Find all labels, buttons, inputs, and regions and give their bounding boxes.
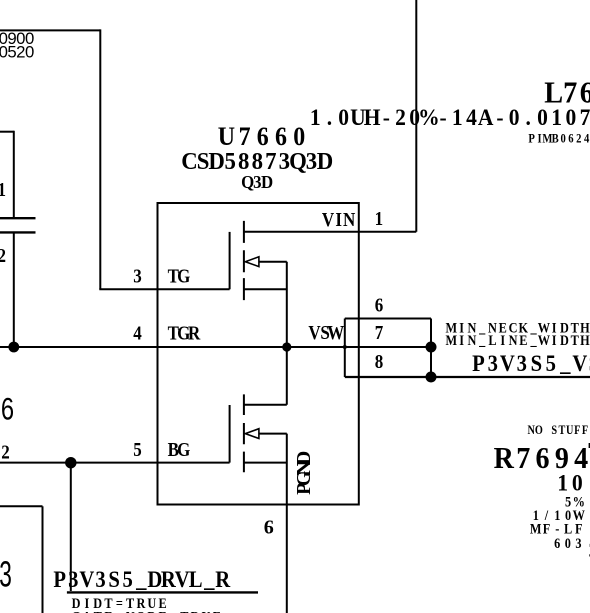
svg-text:5: 5 [133,439,142,462]
wire TG net top horizontal [0,29,100,31]
pins bracket right edge [430,319,432,378]
svg-text:Q3D: Q3D [241,171,273,192]
junction FET source/VSW [282,342,291,351]
transistor Q-high channel dashes [243,221,245,300]
wire TGR / VSW horizontal net [0,346,431,348]
transistor Q-low gate bar [229,405,231,463]
transistor Q-low drain bar [244,404,287,406]
component U7660 body box [158,203,359,505]
transistor Q-low channel dashes [243,394,245,472]
wire TG net vertical [99,29,101,289]
svg-text:6: 6 [375,294,384,317]
svg-text:VIN: VIN [322,209,356,232]
svg-text:P3V3S5_VSW: P3V3S5_VSW [472,350,590,377]
svg-text:2: 2 [1,441,10,464]
junction small bracket left [343,345,347,349]
svg-text:2: 2 [0,245,6,268]
svg-text:1: 1 [0,179,6,202]
wire capacitor top lead [13,131,15,219]
transistor Q-high body-diode line [259,261,287,263]
wire VIN vertical from top [415,0,417,232]
junction BG/DRVL [65,457,76,468]
transistor Q-high source bar [244,288,287,290]
svg-text:3: 3 [0,554,12,595]
arrow Q-high body diode [245,257,259,267]
wire capacitor bottom lead [13,232,15,347]
wire TG net into gate [99,288,229,290]
svg-text:7: 7 [375,322,384,345]
arrow Q-low body diode [245,429,259,439]
junction bracket pin7 [426,342,437,353]
capacitor C-left top plate [0,217,36,219]
junction capacitor/TGR [8,342,19,353]
transistor Q-low source bar [244,462,287,464]
svg-text:TG: TG [168,265,191,288]
cut-off character sliver right of R7694 [589,443,590,448]
svg-text:PGND: PGND [293,451,315,495]
wire VIN pin 1 / top FET drain [244,231,416,233]
wire top FET source to VSW [286,262,288,405]
svg-text:NO STUFF: NO STUFF [527,424,588,437]
svg-text:3: 3 [133,265,142,288]
svg-text:P3V3S5_DRVL_R: P3V3S5_DRVL_R [53,566,231,593]
svg-text:0520: 0520 [0,43,34,62]
svg-text:TGR: TGR [168,322,201,345]
component box bottom-left top edge [0,505,43,507]
svg-text:4: 4 [133,322,142,345]
svg-text:8: 8 [375,351,384,374]
net label underline P3V3S5_DRVL_R [67,591,258,593]
wire pin 9 PGND below box [286,505,288,613]
svg-text:1: 1 [375,208,384,231]
svg-text:9: 9 [264,516,274,538]
svg-text:603: 603 [554,535,581,551]
transistor Q-low body-diode line [259,433,287,435]
component box bottom-left right edge [42,506,44,613]
wire capacitor top stub [0,131,14,133]
wire BG net horizontal [0,462,230,464]
capacitor C-left bottom plate [0,231,36,233]
wire BG net vertical drop to label [70,463,72,591]
wire pin 8 / net P3V3S5_VSW [345,376,590,378]
svg-text:VSW: VSW [308,322,344,345]
transistor Q-high gate bar [229,232,231,289]
wire low FET source to PGND [286,434,288,505]
junction bracket pin8 [426,372,437,383]
svg-text:6: 6 [1,391,14,427]
pins 6/7/8 bracket left edge [344,319,346,378]
wire pin 6 [345,318,431,320]
svg-text:BG: BG [168,439,191,462]
